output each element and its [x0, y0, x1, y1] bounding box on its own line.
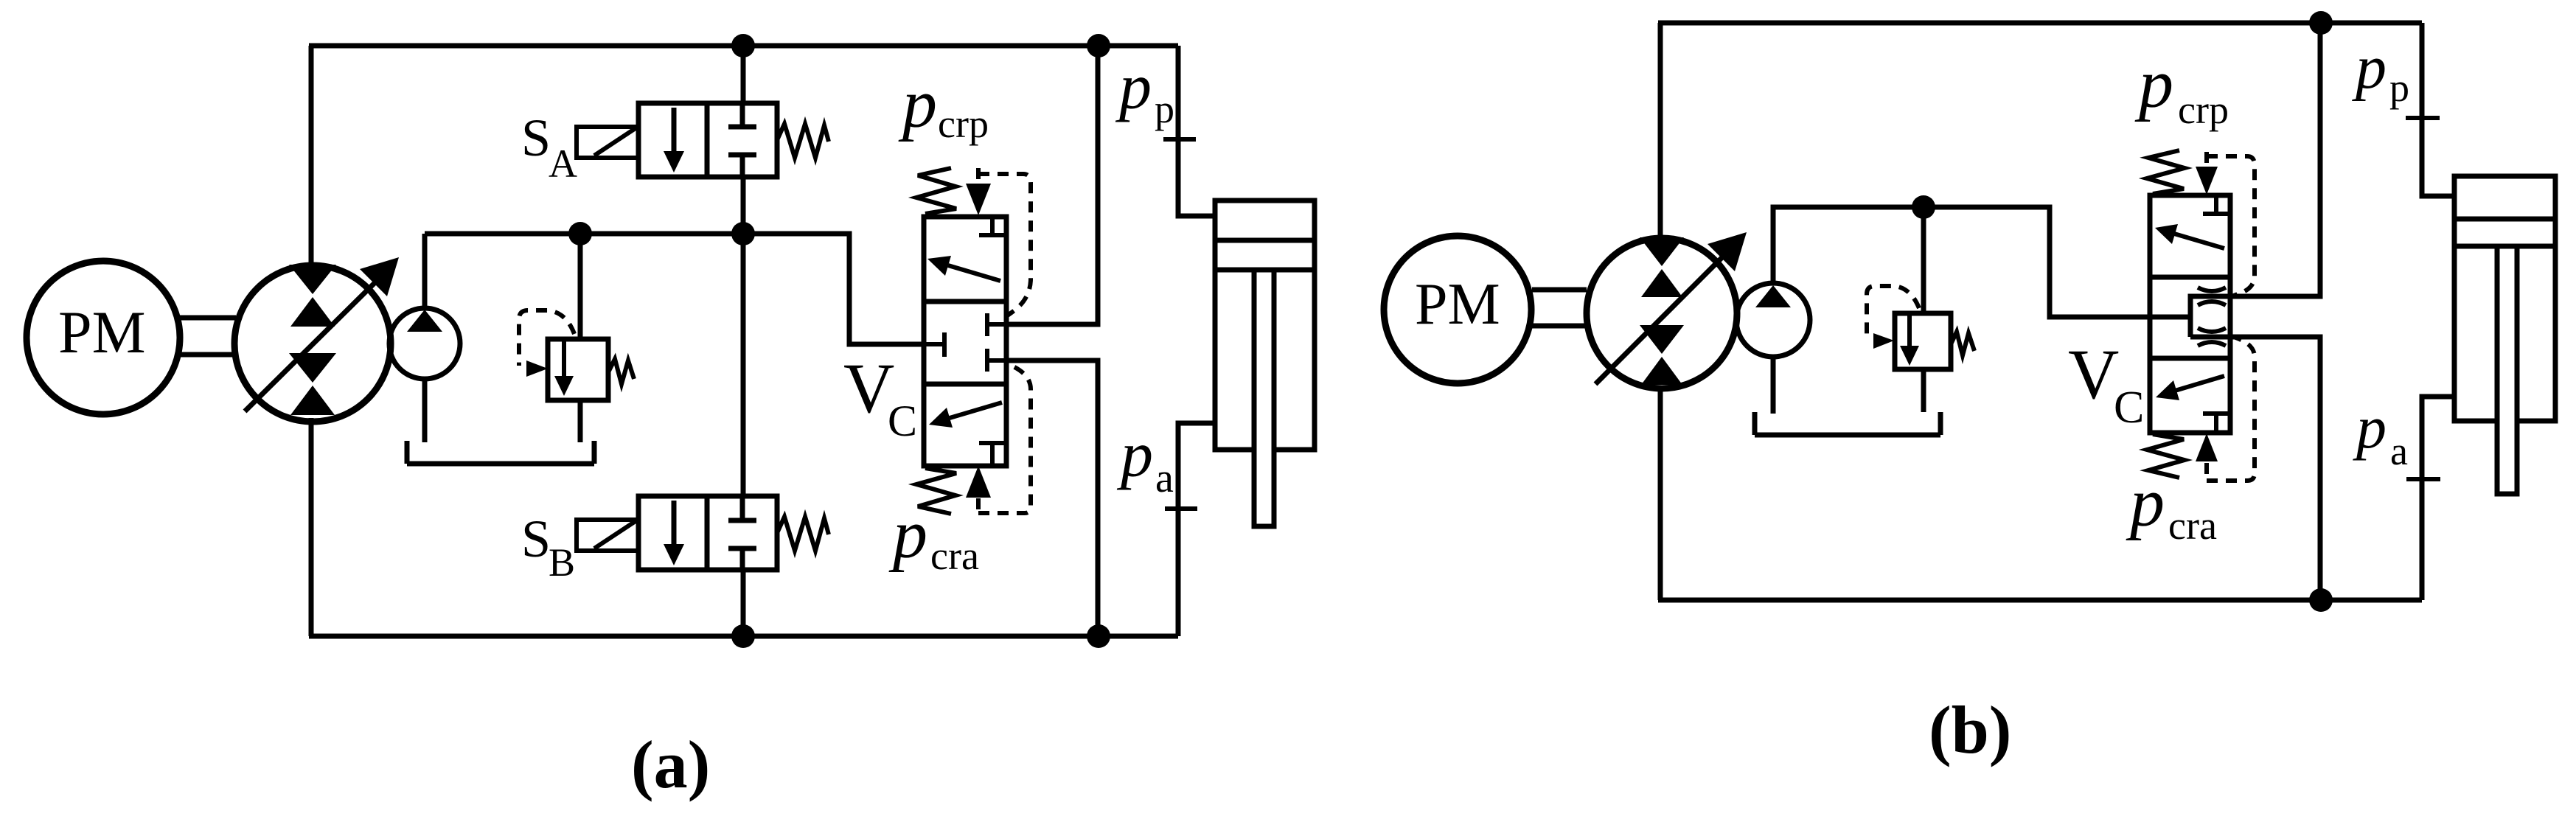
pp tick (a)	[1163, 137, 1196, 142]
VC orifice arcs (b)	[2198, 287, 2226, 346]
tank (a)	[407, 441, 594, 464]
mid rail (a)	[425, 231, 849, 237]
cylinder rod (b)	[2497, 246, 2517, 494]
VC middle input line (b)	[2109, 315, 2190, 320]
junction top rail / valve return (b)	[2309, 11, 2333, 35]
svg-text:(b): (b)	[1929, 692, 2011, 767]
variable displacement pump (a)	[234, 265, 391, 422]
bottom rail (a)	[309, 634, 1178, 639]
SA flow arrow	[672, 108, 677, 155]
SB blocked ports	[728, 496, 756, 570]
wire SB (a)	[741, 234, 746, 636]
VC top spring (a)	[916, 168, 956, 214]
VC bottom pilot arrow (a)	[976, 498, 981, 513]
relief valve pilot (a)	[519, 310, 574, 366]
VC top pilot arrow (a)	[976, 168, 981, 183]
charge pump (b)	[1736, 283, 1810, 357]
junction top rail / SA (a)	[731, 34, 755, 57]
SA blocked ports	[728, 103, 756, 177]
VC bottom section arrow (b)	[2175, 376, 2224, 391]
wire pa (b)	[2422, 397, 2454, 600]
wire SA top (a)	[741, 46, 746, 103]
wire VC upper port to top rail (a)	[1006, 46, 1098, 324]
svg-text:S: S	[521, 108, 551, 167]
svg-text:(a): (a)	[631, 727, 710, 802]
VC bottom spring (a)	[916, 468, 956, 514]
variable arrow (a)	[245, 280, 377, 411]
svg-text:p: p	[898, 66, 937, 142]
svg-text:p: p	[2352, 33, 2387, 102]
VC middle right ports (a)	[987, 313, 1006, 372]
valve VC body (b)	[2150, 195, 2230, 433]
svg-text:C: C	[888, 397, 917, 445]
SB solenoid	[577, 520, 638, 551]
shaft (a)	[180, 318, 236, 355]
svg-text:A: A	[549, 142, 577, 186]
svg-text:crp: crp	[2178, 88, 2229, 132]
cylinder rod (a)	[1254, 270, 1274, 526]
relief valve spring (b)	[1951, 332, 1974, 355]
VC top pilot dashed loop (a)	[978, 174, 1031, 316]
wire pa (a)	[1178, 423, 1215, 636]
svg-text:crp: crp	[938, 102, 989, 146]
VC bottom spring (b)	[2147, 434, 2185, 478]
SB spring	[777, 517, 829, 551]
wire SA bottom to mid rail (a)	[741, 177, 746, 234]
svg-text:a: a	[2390, 429, 2408, 473]
VC top section arrow (b)	[2174, 234, 2224, 248]
valve VC body (a)	[924, 217, 1006, 466]
svg-text:V: V	[2068, 335, 2119, 414]
cylinder (a)	[1215, 201, 1315, 450]
VC bottom blocked port (b)	[2203, 414, 2229, 433]
shaft (b)	[1532, 290, 1587, 326]
wire pp (b)	[2422, 23, 2454, 196]
VC bottom pilot arrow (b)	[2204, 463, 2209, 481]
junction bottom rail / valve (a)	[1087, 624, 1110, 648]
SA spring	[777, 124, 829, 158]
pa tick (b)	[2406, 477, 2440, 481]
mid rail (b)	[1773, 207, 2150, 317]
svg-text:p: p	[1115, 52, 1152, 123]
cylinder (b)	[2454, 176, 2555, 421]
VC middle left port (a)	[924, 332, 944, 357]
svg-text:p: p	[1116, 419, 1153, 491]
junction mid rail / SA-SB line (a)	[731, 222, 755, 245]
svg-text:p: p	[2134, 46, 2173, 122]
wire pp (a)	[1178, 46, 1215, 216]
junction top rail / valve return (a)	[1087, 34, 1110, 57]
VC bottom section arrow (a)	[950, 402, 1002, 418]
VC middle restrictor square (b)	[2190, 296, 2230, 337]
wire VC lower port to bottom rail (b)	[2230, 337, 2320, 600]
SA solenoid	[577, 127, 638, 158]
svg-text:a: a	[1155, 456, 1174, 501]
variable arrow (b)	[1595, 254, 1725, 384]
VC top pilot arrow (b)	[2204, 152, 2209, 165]
svg-text:p: p	[2389, 66, 2409, 110]
relief valve spring (a)	[608, 359, 634, 384]
svg-text:cra: cra	[2168, 503, 2217, 548]
svg-text:PM: PM	[58, 299, 146, 366]
supply wire to VC (a)	[743, 234, 924, 344]
VC top blocked port (a)	[979, 217, 1006, 235]
top rail (b)	[1658, 21, 2422, 26]
VC bottom pilot dashed loop (b)	[2207, 336, 2255, 481]
wire VC lower port to bottom rail (a)	[1006, 360, 1098, 636]
variable displacement pump (b)	[1587, 238, 1737, 388]
wire pump bottom to rail (a)	[309, 418, 314, 636]
bottom rail (b)	[1658, 598, 2422, 603]
top rail (a)	[309, 43, 1178, 49]
relief valve (a)	[578, 234, 583, 339]
VC top section arrow (a)	[948, 265, 1000, 281]
svg-text:p: p	[2353, 394, 2387, 461]
relief valve pilot (b)	[1867, 286, 1919, 337]
wire pump top to rail (b)	[1658, 23, 1663, 237]
VC top pilot dashed loop (b)	[2207, 156, 2255, 296]
charge pump (a)	[422, 234, 428, 308]
relief valve (b)	[1921, 207, 1926, 313]
svg-text:cra: cra	[930, 534, 979, 578]
SB flow arrow	[672, 501, 677, 548]
junction bottom rail / SB (a)	[731, 624, 755, 648]
VC top blocked port (b)	[2203, 195, 2229, 214]
VC bottom blocked port (a)	[979, 443, 1006, 466]
junction mid rail / relief (a)	[568, 222, 592, 245]
svg-text:p: p	[2126, 464, 2165, 541]
pa tick (a)	[1165, 506, 1197, 511]
solenoid valve SB body	[638, 496, 777, 570]
VC top spring (b)	[2147, 150, 2185, 194]
svg-text:C: C	[2114, 383, 2144, 433]
tank (b)	[1755, 412, 1940, 435]
pp tick (b)	[2406, 116, 2440, 120]
svg-text:V: V	[843, 349, 894, 428]
junction bottom rail / valve (b)	[2309, 588, 2333, 612]
junction mid rail / relief (b)	[1912, 195, 1935, 219]
svg-text:S: S	[521, 509, 551, 568]
solenoid valve SA body	[638, 103, 777, 177]
motor PM (b)	[1384, 236, 1531, 383]
motor PM (a)	[27, 261, 180, 414]
VC bottom pilot dashed loop (a)	[978, 362, 1031, 513]
svg-text:PM: PM	[1415, 272, 1500, 337]
svg-text:p: p	[888, 496, 927, 573]
wire pump bottom to rail (b)	[1658, 387, 1663, 600]
wire pump top to rail (a)	[309, 46, 314, 264]
svg-text:p: p	[1155, 87, 1174, 131]
wire VC upper port to top rail (b)	[2230, 23, 2320, 296]
svg-text:B: B	[549, 540, 575, 585]
